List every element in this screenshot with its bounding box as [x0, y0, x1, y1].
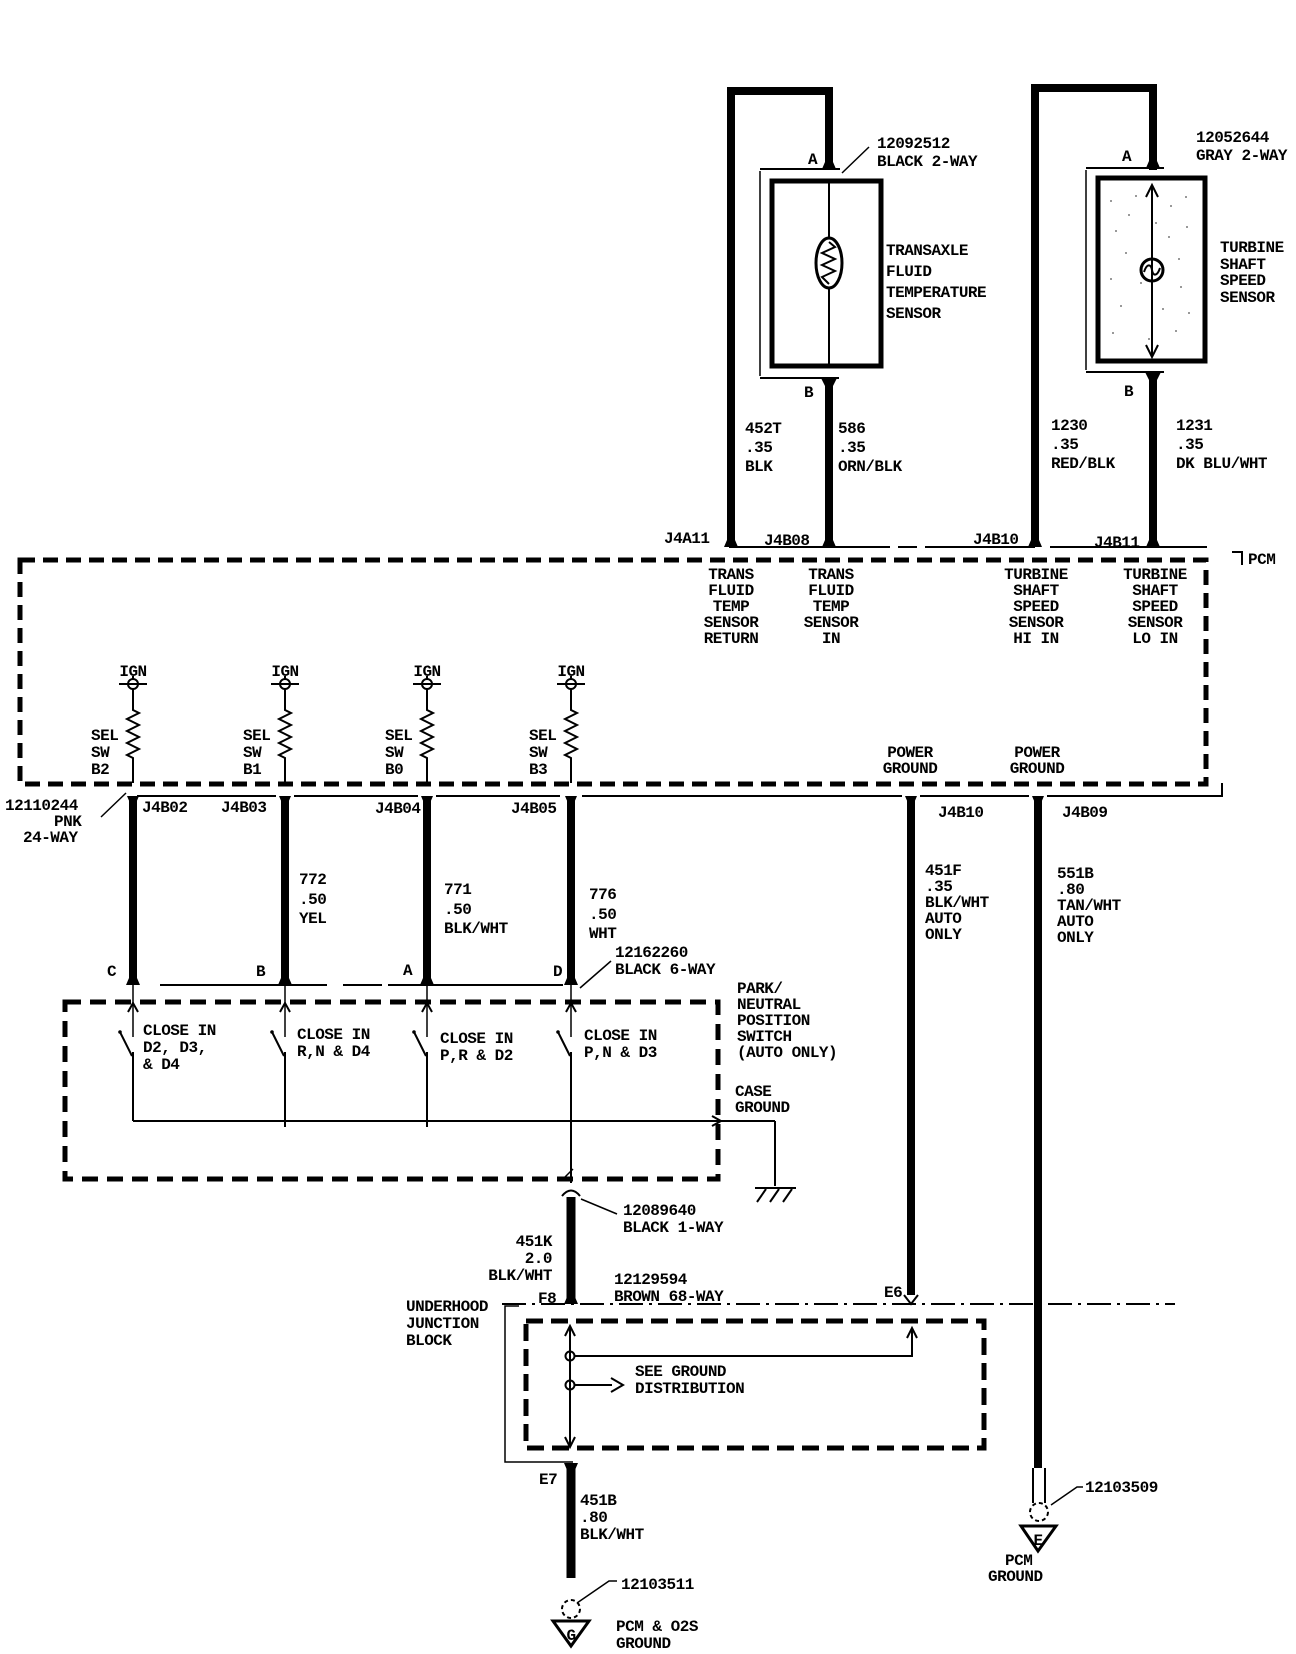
svg-text:SEL: SEL	[385, 727, 412, 745]
svg-text:GROUND: GROUND	[883, 760, 938, 778]
svg-text:CLOSE IN: CLOSE IN	[440, 1030, 513, 1048]
pin flare A transaxle	[822, 162, 836, 169]
sensor internal lead	[828, 183, 830, 364]
switch close in R N D4	[270, 985, 371, 1127]
svg-text:.35: .35	[745, 439, 772, 457]
svg-text:.35: .35	[1176, 436, 1203, 454]
switch common bus wire	[133, 1120, 775, 1122]
wire label 451F .35 BLK/WHT AUTO ONLY	[925, 862, 990, 944]
wire 451F J4B10 to junction block E6	[904, 796, 918, 1304]
svg-text:.50: .50	[589, 906, 616, 924]
connector label 12162260 BLACK 6-WAY	[615, 944, 716, 979]
svg-text:(AUTO ONLY): (AUTO ONLY)	[737, 1044, 837, 1062]
svg-text:BLK/WHT: BLK/WHT	[488, 1267, 553, 1285]
svg-text:ONLY: ONLY	[925, 926, 962, 944]
internal wire to E6	[575, 1328, 917, 1356]
tick at box bottom crossing	[565, 1169, 573, 1177]
connector 12092512 face line pin B	[760, 377, 839, 379]
svg-text:R,N & D4: R,N & D4	[297, 1043, 371, 1061]
svg-text:PCM & O2S: PCM & O2S	[616, 1618, 699, 1636]
svg-text:DISTRIBUTION: DISTRIBUTION	[635, 1380, 744, 1398]
label CASE GROUND	[735, 1083, 790, 1117]
PCM module dashed box	[20, 560, 1206, 784]
label PCM and O2S GROUND	[616, 1618, 699, 1653]
svg-text:772: 772	[299, 871, 326, 889]
svg-text:WHT: WHT	[589, 925, 617, 943]
wire 1231 sensor pin B down to PCM J4B11	[1149, 372, 1157, 547]
svg-text:12162260: 12162260	[615, 944, 688, 962]
svg-text:A: A	[403, 962, 413, 980]
svg-text:GRAY 2-WAY: GRAY 2-WAY	[1196, 147, 1288, 165]
svg-text:HI IN: HI IN	[1013, 630, 1059, 648]
connector 12162260 face line (6-way)	[160, 984, 563, 986]
svg-text:BLACK 2-WAY: BLACK 2-WAY	[877, 153, 978, 171]
svg-text:SW: SW	[529, 744, 548, 762]
ground E triangle PCM ground	[1021, 1526, 1056, 1551]
pin flare B transaxle	[821, 378, 837, 386]
svg-text:LO IN: LO IN	[1132, 630, 1178, 648]
svg-text:CLOSE IN: CLOSE IN	[143, 1022, 216, 1040]
svg-text:SW: SW	[385, 744, 404, 762]
wire J4B02 to switch pin C	[127, 796, 139, 985]
junction block left bracket	[505, 1306, 573, 1462]
svg-text:.50: .50	[444, 901, 471, 919]
svg-text:GROUND: GROUND	[735, 1099, 790, 1117]
switch close in D2 D3 D4	[118, 985, 216, 1121]
case ground symbol	[755, 1188, 796, 1202]
connector 12110244 label PNK 24-WAY	[5, 797, 82, 847]
flare at E7	[564, 1463, 578, 1470]
wire 586 sensor pin B down to PCM J4B08	[825, 378, 833, 547]
resistor SEL SW B2	[91, 689, 139, 783]
svg-text:BLACK 6-WAY: BLACK 6-WAY	[615, 961, 716, 979]
junction block internal bus vertical	[565, 1326, 575, 1447]
svg-text:.35: .35	[838, 439, 865, 457]
wire label 451B .80 BLK/WHT	[580, 1492, 645, 1544]
svg-text:SW: SW	[243, 744, 262, 762]
svg-text:12052644: 12052644	[1196, 129, 1270, 147]
pin flare A speed sensor	[1146, 161, 1160, 168]
svg-text:A: A	[1122, 148, 1132, 166]
speed sensor scan dots	[1110, 195, 1190, 340]
AC generator symbol	[1141, 259, 1163, 281]
connector 12052644 face line pin B	[1086, 371, 1164, 373]
wire label 551B .80 TAN/WHT AUTO ONLY	[1057, 865, 1122, 947]
svg-text:1231: 1231	[1176, 417, 1212, 435]
leader 12110244	[101, 793, 126, 817]
svg-text:SENSOR: SENSOR	[886, 305, 942, 323]
transaxle fluid temperature sensor box	[772, 181, 881, 366]
wire 771 J4B04 to switch pin A	[421, 796, 433, 985]
leader 12103511	[577, 1581, 617, 1603]
svg-text:771: 771	[444, 881, 471, 899]
wire label 451K 2.0 BLK/WHT	[488, 1233, 553, 1285]
node ground bus tap 2	[566, 1381, 575, 1390]
wire 451K to junction block F8	[567, 1197, 576, 1304]
leader 12103509	[1051, 1487, 1083, 1505]
pin flare B speed sensor	[1145, 372, 1161, 380]
leader 12089640	[581, 1199, 617, 1214]
pin flares at 6-way face	[126, 978, 140, 985]
svg-text:ONLY: ONLY	[1057, 929, 1094, 947]
pin flares at PCM top face	[724, 540, 738, 547]
svg-text:B: B	[256, 963, 266, 981]
svg-text:G: G	[566, 1627, 575, 1645]
svg-text:12129594: 12129594	[614, 1271, 688, 1289]
arrow see ground distribution	[575, 1378, 623, 1392]
wire 551B J4B09 to PCM ground	[1032, 796, 1044, 1468]
svg-text:SEE GROUND: SEE GROUND	[635, 1363, 726, 1381]
switch close in P N D3	[556, 985, 657, 1062]
svg-text:E: E	[1033, 1532, 1042, 1550]
svg-text:YEL: YEL	[299, 910, 326, 928]
svg-text:J4B05: J4B05	[511, 800, 557, 818]
resistor SEL SW B3	[529, 689, 577, 783]
svg-text:SEL: SEL	[529, 727, 556, 745]
ground G triangle PCM and O2S ground	[553, 1621, 589, 1646]
PCM power ground label 1	[883, 744, 938, 778]
label PARK/NEUTRAL POSITION SWITCH (AUTO ONLY)	[737, 980, 837, 1062]
svg-text:452T: 452T	[745, 420, 782, 438]
switch close in P R D2	[412, 985, 513, 1127]
resistor SEL SW B1	[243, 689, 291, 783]
svg-text:SEL: SEL	[243, 727, 270, 745]
svg-text:B: B	[804, 384, 814, 402]
svg-text:GROUND: GROUND	[1010, 760, 1065, 778]
svg-text:RED/BLK: RED/BLK	[1051, 455, 1116, 473]
PCM bottom connector face line	[137, 795, 1207, 797]
svg-text:JUNCTION: JUNCTION	[406, 1315, 479, 1333]
svg-text:J4B04: J4B04	[375, 800, 421, 818]
PCM power ground label 2	[1010, 744, 1065, 778]
connector label 12089640 BLACK 1-WAY	[623, 1202, 724, 1237]
svg-text:B0: B0	[385, 761, 403, 779]
IGN node B1	[271, 663, 299, 689]
svg-text:B2: B2	[91, 761, 109, 779]
turbine shaft speed sensor box	[1098, 178, 1205, 361]
svg-text:D2, D3,: D2, D3,	[143, 1039, 207, 1057]
svg-text:GROUND: GROUND	[988, 1568, 1043, 1586]
svg-text:E6: E6	[884, 1284, 902, 1302]
svg-text:& D4: & D4	[143, 1056, 180, 1074]
leader 12092512	[842, 147, 869, 173]
connector 12092512 face line pin A	[760, 168, 840, 170]
svg-text:12103511: 12103511	[621, 1576, 694, 1594]
svg-text:CLOSE IN: CLOSE IN	[584, 1027, 657, 1045]
svg-text:D: D	[553, 963, 562, 981]
label PCM GROUND	[988, 1552, 1043, 1586]
svg-text:B: B	[1124, 383, 1134, 401]
wire 772 J4B03 to switch pin B	[279, 796, 291, 985]
svg-text:CLOSE IN: CLOSE IN	[297, 1026, 370, 1044]
ring terminal 12103509	[1030, 1468, 1048, 1521]
wire switch D column through bus to box bottom	[570, 1052, 572, 1183]
label SEE GROUND DISTRIBUTION	[635, 1363, 744, 1398]
svg-text:BLK/WHT: BLK/WHT	[580, 1526, 645, 1544]
svg-text:24-WAY: 24-WAY	[23, 829, 79, 847]
svg-text:RETURN: RETURN	[704, 630, 759, 648]
svg-text:BLK: BLK	[745, 458, 773, 476]
svg-text:B1: B1	[243, 761, 261, 779]
svg-text:PCM: PCM	[1248, 551, 1275, 569]
svg-text:12092512: 12092512	[877, 135, 950, 153]
svg-text:.80: .80	[580, 1509, 607, 1527]
svg-text:GROUND: GROUND	[616, 1635, 671, 1653]
wire label 772 .50 YEL	[299, 871, 326, 928]
wire 451B from E7	[567, 1463, 576, 1578]
wire J4A11 loop to transaxle fluid temp sensor pin A	[731, 91, 829, 547]
svg-text:SENSOR: SENSOR	[1220, 289, 1276, 307]
svg-text:J4B02: J4B02	[142, 799, 188, 817]
svg-text:J4B08: J4B08	[764, 532, 810, 550]
svg-text:C: C	[107, 963, 117, 981]
case ground wire drop	[774, 1121, 776, 1186]
svg-text:ORN/BLK: ORN/BLK	[838, 458, 903, 476]
svg-text:2.0: 2.0	[525, 1250, 552, 1268]
svg-text:B3: B3	[529, 761, 547, 779]
svg-text:FLUID: FLUID	[886, 263, 932, 281]
svg-text:TRANSAXLE: TRANSAXLE	[886, 242, 968, 260]
svg-text:776: 776	[589, 886, 616, 904]
park/neutral position switch dashed box	[65, 1002, 718, 1179]
arrow at bus exiting switch box	[712, 1116, 721, 1126]
speed sensor internal lead with arrows	[1151, 186, 1153, 356]
wire label 771 .50 BLK/WHT	[444, 881, 509, 938]
wire 776 J4B05 to switch pin D	[565, 796, 577, 985]
svg-text:.50: .50	[299, 891, 326, 909]
PCM top connector face line	[729, 546, 1207, 548]
svg-text:SEL: SEL	[91, 727, 118, 745]
svg-text:DK BLU/WHT: DK BLU/WHT	[1176, 455, 1268, 473]
svg-text:.35: .35	[1051, 436, 1078, 454]
connector 12052644 bracket	[1085, 170, 1087, 370]
svg-text:451K: 451K	[516, 1233, 553, 1251]
underhood junction block connector dash-dot line	[502, 1303, 1175, 1305]
wire label 776 .50 WHT	[589, 886, 617, 943]
svg-text:TEMPERATURE: TEMPERATURE	[886, 284, 986, 302]
svg-text:J4B03: J4B03	[221, 799, 267, 817]
inline connector 12089640 symbol	[562, 1191, 580, 1197]
svg-text:J4A11: J4A11	[664, 530, 710, 548]
ring terminal 12103511	[562, 1600, 580, 1618]
thermistor symbol	[816, 238, 842, 288]
svg-text:J4B11: J4B11	[1094, 534, 1140, 552]
svg-text:586: 586	[838, 420, 865, 438]
svg-text:F8: F8	[538, 1290, 556, 1308]
connector label 12129594 BROWN 68-WAY	[614, 1271, 724, 1306]
resistor SEL SW B0	[385, 689, 433, 783]
svg-text:BLACK 1-WAY: BLACK 1-WAY	[623, 1219, 724, 1237]
svg-text:J4B10: J4B10	[938, 804, 984, 822]
wire J4B10 loop to turbine shaft speed sensor pin A	[1035, 88, 1153, 547]
svg-text:P,R & D2: P,R & D2	[440, 1047, 513, 1065]
svg-text:IN: IN	[822, 630, 840, 648]
svg-text:12089640: 12089640	[623, 1202, 696, 1220]
IGN node B3	[557, 663, 585, 689]
svg-text:SW: SW	[91, 744, 110, 762]
svg-text:P,N & D3: P,N & D3	[584, 1044, 657, 1062]
underhood junction block dashed box	[526, 1321, 984, 1448]
svg-text:12103509: 12103509	[1085, 1479, 1158, 1497]
svg-text:J4B10: J4B10	[973, 531, 1019, 549]
svg-text:451B: 451B	[580, 1492, 617, 1510]
svg-text:BLK/WHT: BLK/WHT	[444, 920, 509, 938]
leader 12162260	[580, 961, 611, 988]
IGN node B2	[119, 663, 147, 689]
svg-text:E7: E7	[539, 1471, 557, 1489]
svg-text:TURBINE: TURBINE	[1220, 239, 1284, 257]
flare at F8	[564, 1297, 578, 1304]
svg-text:J4B09: J4B09	[1062, 804, 1108, 822]
connector 12052644 face line pin A	[1086, 167, 1164, 169]
node ground bus tap 1	[566, 1352, 575, 1361]
label UNDERHOOD JUNCTION BLOCK	[406, 1298, 488, 1350]
svg-text:1230: 1230	[1051, 417, 1087, 435]
IGN node B0	[413, 663, 441, 689]
svg-text:A: A	[808, 151, 818, 169]
PCM label corner bracket top	[1232, 552, 1242, 565]
svg-text:SPEED: SPEED	[1220, 272, 1266, 290]
connector 12092512 bracket	[759, 171, 761, 376]
svg-text:BLOCK: BLOCK	[406, 1332, 452, 1350]
svg-text:UNDERHOOD: UNDERHOOD	[406, 1298, 488, 1316]
PCM bottom corner bracket	[1207, 783, 1222, 796]
